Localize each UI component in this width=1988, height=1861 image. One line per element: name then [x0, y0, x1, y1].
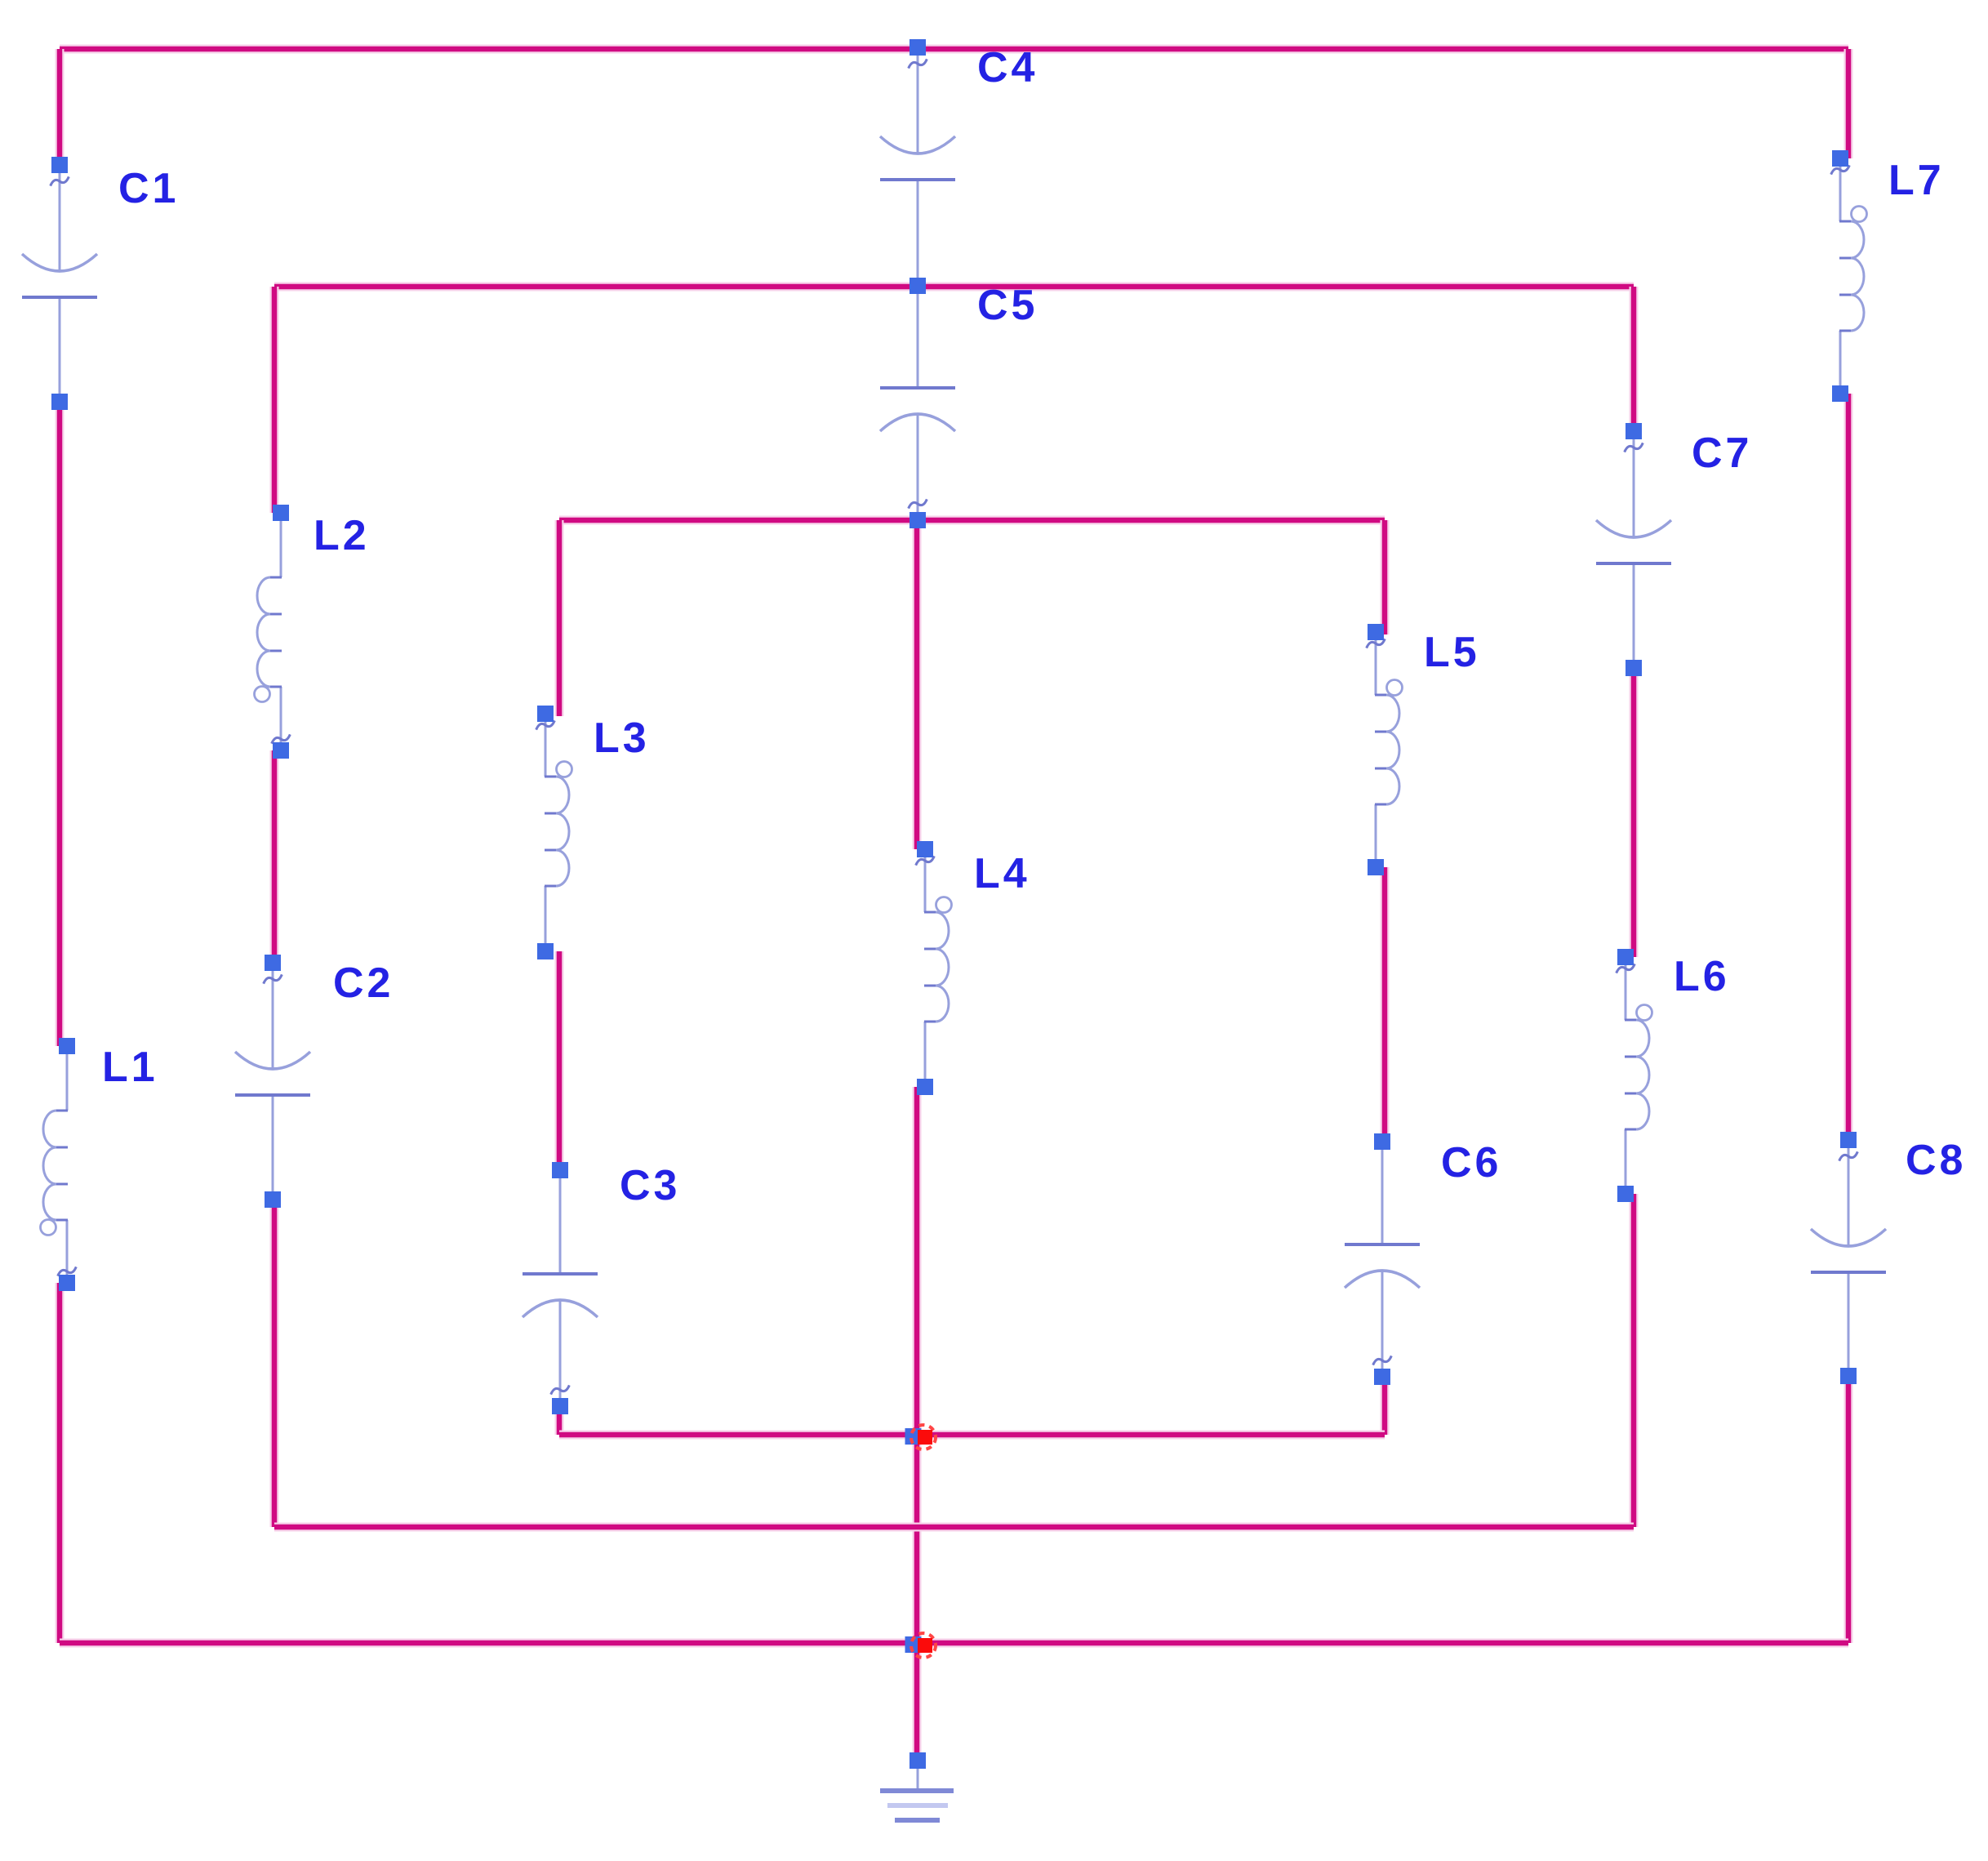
junction	[905, 1633, 936, 1658]
wire middle right middle	[1630, 668, 1639, 957]
svg-text:C4: C4	[977, 44, 1038, 91]
wire middle bottom	[274, 1523, 1634, 1532]
svg-text:L1: L1	[102, 1044, 158, 1091]
wire outer right lower	[1844, 1376, 1853, 1643]
svg-text:L5: L5	[1424, 629, 1480, 676]
svg-text:C8: C8	[1906, 1137, 1966, 1184]
wire inner left lower	[555, 1406, 564, 1435]
svg-text:C7: C7	[1692, 430, 1752, 477]
wire inner left middle	[555, 951, 564, 1170]
ground	[880, 1752, 954, 1820]
svg-text:L4: L4	[974, 850, 1030, 897]
wire middle left middle	[270, 750, 279, 963]
wire middle left upper	[270, 287, 279, 513]
svg-text:L7: L7	[1888, 157, 1945, 204]
junction	[905, 1425, 936, 1449]
capacitor C3	[523, 1162, 598, 1414]
svg-text:C1: C1	[118, 165, 179, 212]
svg-text:L3: L3	[594, 715, 650, 762]
wire middle right lower	[1630, 1194, 1639, 1527]
capacitor C2	[235, 955, 310, 1208]
wire outer right middle	[1844, 394, 1853, 1140]
inductor L7	[1830, 150, 1867, 402]
svg-text:L2: L2	[314, 512, 370, 559]
inductor L3	[536, 706, 572, 959]
capacitor C8	[1811, 1132, 1886, 1384]
inductor L4	[915, 841, 952, 1095]
inductor L5	[1366, 624, 1403, 875]
wire center upper (C5 to L4)	[913, 520, 922, 849]
wire inner bottom	[559, 1431, 1385, 1440]
capacitor C1	[22, 157, 97, 410]
capacitor C5	[880, 278, 955, 528]
wire inner right lower	[1381, 1377, 1390, 1435]
wire inner right middle	[1381, 867, 1390, 1142]
inductor L6	[1616, 949, 1652, 1202]
svg-text:C6: C6	[1441, 1139, 1501, 1186]
wire inner right upper	[1381, 520, 1390, 634]
wire middle top	[274, 283, 1634, 292]
inductor L2	[255, 505, 291, 759]
wire center lower (L4 to ground)	[913, 1087, 922, 1761]
wire outer left middle	[56, 402, 64, 1046]
wire outer top	[60, 45, 1848, 54]
wire inner left upper	[555, 520, 564, 716]
wire middle left lower	[270, 1200, 279, 1527]
inductor L1	[41, 1038, 78, 1291]
wire outer bottom	[60, 1639, 1848, 1648]
wire outer left lower	[56, 1283, 64, 1643]
svg-text:L6: L6	[1674, 953, 1730, 1000]
svg-text:C2: C2	[333, 959, 394, 1007]
capacitor C4	[880, 39, 955, 294]
wire middle right upper	[1630, 287, 1639, 431]
svg-text:C5: C5	[977, 282, 1038, 329]
wire outer left upper	[56, 49, 64, 165]
capacitor C6	[1345, 1133, 1420, 1385]
capacitor C7	[1596, 423, 1671, 676]
svg-text:C3: C3	[620, 1162, 680, 1209]
wire outer right upper	[1844, 49, 1853, 158]
wire inner top	[559, 516, 1385, 525]
